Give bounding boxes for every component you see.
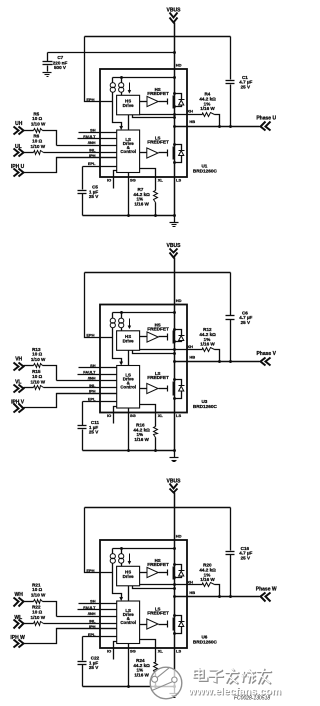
- svg-text:SH: SH: [90, 598, 96, 603]
- wire HS source sense: [133, 586, 175, 589]
- svg-text:EPL: EPL: [88, 161, 96, 166]
- resistor R21 10 ohm 1/10 W: [24, 601, 34, 603]
- IC U3 BRD1260C outline: [100, 305, 187, 413]
- svg-text:XL: XL: [158, 648, 164, 653]
- transistor LS FREDFET Q-low: [167, 386, 169, 392]
- wire phase U line: [175, 126, 260, 128]
- svg-text:10 Ω: 10 Ω: [32, 116, 42, 121]
- transistor HS FREDFET Q-high: [167, 570, 169, 576]
- svg-text:Control: Control: [120, 149, 136, 154]
- junction XL/rail: [154, 449, 157, 452]
- pin SG wire+label: [128, 409, 130, 451]
- svg-text:10 Ω: 10 Ω: [32, 587, 42, 592]
- resistor R5 10 ohm 1/10 W: [24, 130, 34, 132]
- svg-text:BRD1260C: BRD1260C: [193, 404, 218, 409]
- svg-text:SG: SG: [130, 177, 136, 182]
- wire VBUS top rail: [85, 507, 231, 509]
- svg-text:25 V: 25 V: [241, 84, 251, 89]
- svg-text:FREDFET: FREDFET: [147, 327, 169, 332]
- wire VBUS top rail: [85, 272, 231, 274]
- capacitor C5 1 uF 25 V: [82, 167, 84, 190]
- wire C7 tap: [48, 52, 175, 54]
- buffer LS gate driver: [140, 624, 147, 626]
- svg-text:10 Ω: 10 Ω: [32, 610, 42, 615]
- svg-text:Control: Control: [120, 620, 136, 625]
- svg-text:1/10 W: 1/10 W: [31, 357, 46, 362]
- capacitor C6 4.7 uF 25 V: [226, 315, 235, 317]
- wire HS Drive to LS control: [128, 351, 130, 366]
- svg-text:SG: SG: [130, 413, 136, 418]
- wire HS Drive to LS control: [128, 115, 130, 131]
- svg-text:10 Ω: 10 Ω: [32, 374, 42, 379]
- block HS Drive: [117, 331, 140, 351]
- svg-text:SG: SG: [130, 648, 136, 653]
- resistor R13 10 ohm 1/10 W: [24, 365, 34, 367]
- svg-text:VH: VH: [15, 357, 22, 363]
- junction sense/source: [173, 352, 176, 355]
- arrow charge current: [129, 319, 131, 327]
- svg-text:IPH W: IPH W: [10, 635, 25, 641]
- pin SG wire+label: [128, 173, 130, 216]
- wire IPH U to IPH pin: [24, 158, 117, 173]
- wire I1 to LS control (arrowed): [113, 328, 122, 363]
- junction R/phase: [218, 125, 221, 128]
- wire VL to INL: [44, 387, 117, 389]
- junction SG/rail: [127, 449, 130, 452]
- wire HS source sense: [133, 351, 175, 354]
- watermark logo circle: [150, 667, 182, 699]
- diode HS body: [175, 565, 182, 571]
- pin IO stub+label: [114, 171, 117, 189]
- capacitor C1 4.7 uF 25 V: [226, 80, 235, 82]
- junction LS diode taps: [173, 378, 176, 381]
- wire bootstrap branch to C6: [230, 273, 232, 316]
- ground (C7): [43, 72, 52, 74]
- svg-text:1/16 W: 1/16 W: [134, 437, 149, 442]
- svg-text:FREDFET: FREDFET: [147, 562, 169, 567]
- wire HS Drive to LS control: [128, 586, 130, 601]
- transistor HS FREDFET Q-high: [167, 99, 169, 105]
- svg-text:HD: HD: [176, 533, 182, 538]
- wire phase V line: [175, 361, 260, 363]
- svg-text:HB: HB: [189, 355, 195, 360]
- svg-text:FAULT: FAULT: [83, 369, 96, 374]
- junction XL/rail: [154, 214, 157, 217]
- buffer HS gate driver: [140, 101, 147, 103]
- pin XL wire+label: [140, 405, 156, 427]
- capacitor C22 1 uF 25 V: [82, 637, 84, 661]
- wire bottom rail: [83, 215, 175, 217]
- junction XH/source: [173, 583, 176, 586]
- svg-text:EPH: EPH: [86, 97, 94, 102]
- junction SG/rail: [127, 685, 130, 688]
- junction XL/rail: [154, 685, 157, 688]
- svg-text:Phase W: Phase W: [256, 587, 277, 593]
- svg-text:XL: XL: [158, 177, 164, 182]
- svg-text:VBUS: VBUS: [167, 243, 182, 249]
- junction sense/source: [173, 116, 176, 119]
- wire WH to /INH: [43, 602, 57, 617]
- svg-text:1/10 W: 1/10 W: [31, 593, 46, 598]
- svg-text:1/10 W: 1/10 W: [31, 144, 46, 149]
- diode LS body: [175, 380, 182, 386]
- transistor LS FREDFET Q-low: [167, 621, 169, 628]
- svg-text:25 V: 25 V: [89, 194, 99, 199]
- wire VBUS top rail: [85, 36, 231, 38]
- svg-text:HD: HD: [176, 298, 182, 303]
- svg-text:FREDFET: FREDFET: [147, 375, 169, 380]
- wire UH to /INH: [43, 131, 57, 146]
- junction HB/source: [173, 595, 176, 598]
- wire R4 to phase: [215, 115, 220, 127]
- svg-text:LS: LS: [176, 177, 181, 182]
- svg-text:BRD1260C: BRD1260C: [193, 168, 218, 173]
- svg-text:25 V: 25 V: [241, 320, 251, 325]
- svg-text:Phase U: Phase U: [256, 116, 276, 122]
- junction HD rail: [173, 311, 176, 314]
- wire current-source rail: [113, 77, 175, 79]
- svg-text:Drive: Drive: [123, 574, 135, 579]
- junction LS/rail: [173, 449, 176, 452]
- wire R20 to phase: [215, 585, 220, 597]
- wire IPH W to IPH pin: [24, 629, 117, 644]
- junction HS diode taps: [173, 563, 176, 566]
- wire R12 to phase: [215, 350, 220, 362]
- pin IO stub+label: [114, 407, 117, 424]
- svg-text:1/10 W: 1/10 W: [31, 615, 46, 620]
- svg-text:Control: Control: [120, 384, 136, 389]
- resistor R6 10 ohm 1/10 W: [24, 152, 34, 154]
- junction LS diode taps: [173, 143, 176, 146]
- capacitor C16 4.7 uF 25 V: [226, 551, 235, 553]
- junction C1/phase line: [229, 125, 232, 128]
- svg-text:XH: XH: [187, 344, 193, 349]
- ground (LS): [174, 216, 176, 223]
- junction R/phase: [218, 360, 221, 363]
- junction HB/source: [173, 360, 176, 363]
- svg-text:25 V: 25 V: [241, 555, 251, 560]
- current source I2: [121, 313, 123, 319]
- svg-text:HD: HD: [176, 62, 182, 67]
- wire bottom rail: [83, 686, 175, 688]
- wire EPH branch: [85, 273, 113, 338]
- resistor R15 10 ohm 1/10 W: [24, 387, 34, 389]
- arrow charge current: [129, 554, 131, 562]
- transistor LS FREDFET Q-low: [167, 150, 169, 157]
- resistor R22 10 ohm 1/10 W: [24, 623, 34, 625]
- wire phase W line: [175, 596, 260, 598]
- svg-text:HB: HB: [189, 590, 195, 595]
- capacitor C11 1 uF 25 V: [82, 402, 84, 426]
- resistor R12 44.2 k 1% 1/16 W: [203, 348, 215, 352]
- pin IO stub+label: [114, 642, 117, 660]
- watermark chinese text (vector strokes): [194, 668, 272, 683]
- buffer HS gate driver: [140, 572, 147, 574]
- wire IPH V to IPH pin: [24, 394, 117, 408]
- diode HS body: [175, 94, 182, 100]
- svg-text:10 Ω: 10 Ω: [32, 139, 42, 144]
- IC U6 BRD1260C outline: [100, 540, 187, 648]
- block LS Drive & Control: [117, 366, 140, 409]
- svg-text:IPH U: IPH U: [11, 164, 25, 170]
- junction HS diode taps: [173, 328, 176, 331]
- resistor R4 44.2 k 1% 1/16 W: [203, 113, 215, 117]
- junction HS diode taps: [173, 92, 176, 95]
- svg-text:LS: LS: [176, 413, 181, 418]
- svg-text:IO: IO: [107, 177, 111, 182]
- wire bottom rail: [83, 450, 175, 452]
- svg-text:HB: HB: [189, 119, 195, 124]
- svg-text:EPH: EPH: [86, 332, 94, 337]
- junction LS diode taps: [173, 614, 176, 617]
- svg-text:XH: XH: [187, 109, 193, 114]
- svg-text:IO: IO: [107, 413, 111, 418]
- pin XL wire+label: [140, 169, 156, 191]
- svg-text:Phase V: Phase V: [256, 351, 276, 357]
- junction LS/rail: [173, 214, 176, 217]
- svg-text:1/16 W: 1/16 W: [200, 342, 215, 347]
- svg-text:1/16 W: 1/16 W: [200, 577, 215, 582]
- svg-text:FREDFET: FREDFET: [147, 140, 169, 145]
- junction SG/rail: [127, 214, 130, 217]
- svg-text:Drive: Drive: [123, 103, 135, 108]
- resistor R24 44.2 k 1% 1/16 W: [154, 663, 158, 674]
- wire EPH branch: [85, 37, 113, 102]
- wire EPH branch: [85, 508, 113, 573]
- svg-text:1/10 W: 1/10 W: [31, 380, 46, 385]
- svg-text:25 V: 25 V: [89, 665, 99, 670]
- diode LS body: [175, 616, 182, 622]
- diode HS body: [175, 330, 182, 336]
- current source I1: [112, 549, 114, 554]
- svg-text:Drive: Drive: [123, 339, 135, 344]
- junction VBUS/C7: [173, 51, 176, 54]
- wire bootstrap branch to C1: [230, 37, 232, 80]
- svg-text:FREDFET: FREDFET: [147, 91, 169, 96]
- wire WL to INL: [44, 623, 117, 625]
- current source I2: [121, 78, 123, 83]
- svg-text:XL: XL: [158, 413, 164, 418]
- current source I1: [112, 313, 114, 319]
- junction HB/source: [173, 125, 176, 128]
- svg-text:IPH: IPH: [89, 388, 96, 393]
- IC U1 BRD1260C outline: [100, 69, 187, 177]
- svg-text:/INH: /INH: [88, 611, 96, 616]
- wire I1 to LS control (arrowed): [113, 564, 122, 598]
- svg-text:/INH: /INH: [88, 140, 96, 145]
- wire I1 to LS control (arrowed): [113, 93, 122, 127]
- buffer HS gate driver: [140, 336, 147, 338]
- svg-text:VBUS: VBUS: [167, 478, 182, 484]
- block LS Drive & Control: [117, 130, 140, 173]
- svg-text:BRD1260C: BRD1260C: [193, 639, 218, 644]
- wire VBUS/HD/phase/LS main vertical: [174, 493, 176, 687]
- wire XH: [140, 114, 203, 116]
- junction XH/source: [173, 348, 176, 351]
- svg-text:SH: SH: [90, 127, 96, 132]
- capacitor C7 220 nF 500 V: [47, 53, 49, 62]
- wire UL to INL: [44, 152, 117, 154]
- junction sense/source: [173, 587, 176, 590]
- junction C16/phase line: [229, 595, 232, 598]
- pin SG wire+label: [128, 644, 130, 687]
- junction XH/source: [173, 113, 176, 116]
- svg-text:1/16 W: 1/16 W: [200, 106, 215, 111]
- svg-text:EPH: EPH: [86, 568, 94, 573]
- current source I2: [121, 549, 123, 554]
- junction R/phase: [218, 595, 221, 598]
- block HS Drive: [117, 95, 140, 115]
- junction LS/rail: [173, 685, 176, 688]
- junction HD rail: [173, 547, 176, 550]
- current source I1: [112, 78, 114, 83]
- transistor HS FREDFET Q-high: [167, 334, 169, 341]
- svg-text:INL: INL: [89, 618, 96, 623]
- svg-text:1/16 W: 1/16 W: [134, 202, 149, 207]
- buffer LS gate driver: [140, 388, 147, 390]
- svg-text:FREDFET: FREDFET: [147, 611, 169, 616]
- ground (LS): [174, 451, 176, 458]
- svg-text:500 V: 500 V: [54, 65, 67, 70]
- arrow charge current: [129, 83, 131, 91]
- diode LS body: [175, 145, 182, 151]
- svg-text:FC0028-130518: FC0028-130518: [234, 696, 270, 702]
- junction HD rail: [173, 76, 176, 79]
- wire VBUS/HD/phase/LS main vertical: [174, 258, 176, 451]
- block HS Drive: [117, 566, 140, 586]
- wire bootstrap branch to C16: [230, 508, 232, 551]
- svg-text:IO: IO: [107, 648, 111, 653]
- wire XH: [140, 584, 203, 586]
- pin XL wire+label: [140, 640, 156, 663]
- svg-text:1/16 W: 1/16 W: [134, 673, 149, 678]
- svg-text:10 Ω: 10 Ω: [32, 352, 42, 357]
- svg-text:25 V: 25 V: [89, 430, 99, 435]
- resistor R20 44.2 k 1% 1/16 W: [203, 583, 215, 587]
- resistor R16 44.2 k 1% 1/16 W: [154, 427, 158, 438]
- svg-text:1/10 W: 1/10 W: [31, 122, 46, 127]
- wire XH: [140, 349, 203, 351]
- wire VH to /INH: [43, 366, 57, 381]
- junction C6/phase line: [229, 360, 232, 363]
- wire VBUS/HD/phase/LS main vertical: [174, 23, 176, 216]
- block LS Drive & Control: [117, 601, 140, 644]
- wire current-source rail: [113, 312, 175, 314]
- resistor R7 44.2 k 1% 1/16 W: [154, 191, 158, 203]
- svg-text:INL: INL: [89, 147, 96, 152]
- ground (LS): [174, 687, 176, 694]
- buffer LS gate driver: [140, 152, 147, 154]
- svg-text:LS: LS: [176, 648, 181, 653]
- wire current-source rail: [113, 548, 175, 550]
- wire HS source sense: [133, 115, 175, 118]
- svg-text:VBUS: VBUS: [167, 7, 182, 13]
